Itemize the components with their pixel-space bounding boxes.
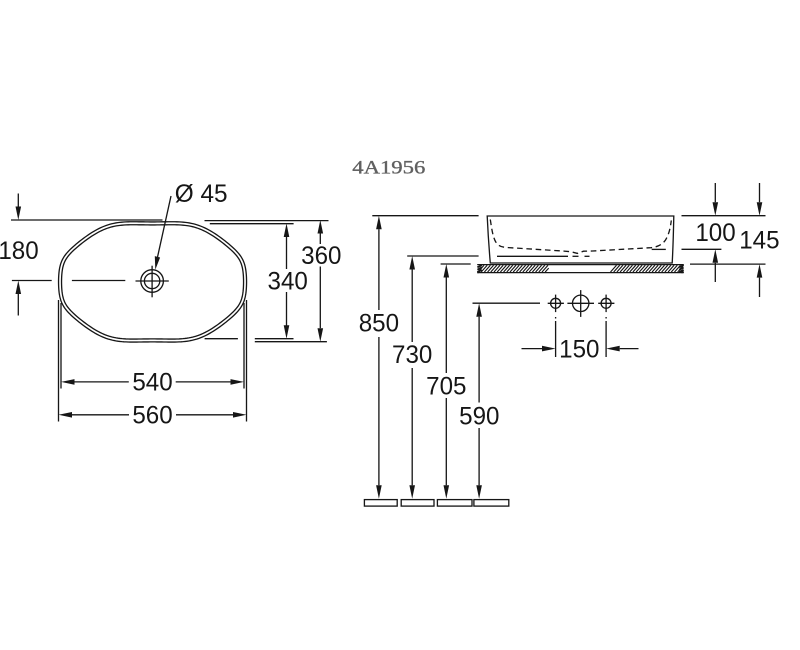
faucet centerline tick marks xyxy=(555,317,557,319)
basin outer rim (top view) xyxy=(59,222,247,342)
drain crosshair horizontal xyxy=(136,280,169,282)
basin inner rim (top view) xyxy=(62,225,244,339)
countertop left end marks xyxy=(477,265,481,273)
svg-text:560: 560 xyxy=(132,403,172,430)
dim 145: top arrowhead (down) xyxy=(757,202,763,216)
dim 100/145: top extension line xyxy=(682,215,766,217)
leader arrowhead xyxy=(155,256,160,270)
dim 150: left arrow line xyxy=(522,348,543,350)
drain hole inner circle xyxy=(144,273,159,288)
dim 100: bottom arrowhead (up) xyxy=(713,249,719,262)
dim 850: line upper part xyxy=(378,229,380,310)
faucet hole left crosshair xyxy=(548,302,564,304)
svg-text:100: 100 xyxy=(695,220,735,247)
dim 560: line right part xyxy=(176,414,233,416)
inner bottom dash-dot marks xyxy=(573,255,579,257)
dim 590: bottom arrowhead (down) xyxy=(476,485,482,499)
dim 540: left extension line xyxy=(60,303,62,389)
dim 360: upper arrowhead xyxy=(318,220,324,234)
dim 560: line left part xyxy=(72,414,129,416)
countertop right end marks xyxy=(679,265,683,273)
dim 340: line upper part xyxy=(286,237,288,269)
floor tile 2 xyxy=(401,500,434,507)
dim 145: bottom arrow shaft xyxy=(759,278,761,297)
svg-text:705: 705 xyxy=(426,374,466,401)
dim 150: left extension line xyxy=(555,321,557,357)
dim 360: line lower part xyxy=(319,267,321,329)
dim 145: top arrow shaft xyxy=(759,183,761,202)
dim 850: top extension line xyxy=(372,215,478,217)
dim 100: top arrowhead (down) xyxy=(713,202,719,216)
floor tile 3 xyxy=(437,500,472,507)
dim 150: right extension line xyxy=(605,321,607,357)
dim 180: lower arrow shaft xyxy=(17,294,19,316)
dim 540: right arrowhead xyxy=(231,379,245,385)
dim 705: top extension line xyxy=(441,263,471,265)
svg-text:360: 360 xyxy=(301,243,341,270)
dim 180: bottom extension line xyxy=(12,280,52,282)
dim 560: left extension line xyxy=(58,300,60,422)
basin outline (side view) xyxy=(487,216,674,263)
dim 850: line lower part xyxy=(378,337,380,485)
drain hole outer circle xyxy=(141,270,164,293)
faucet hole right small circle xyxy=(601,298,611,308)
dim 100: bottom extension line xyxy=(682,248,722,250)
dim 560: left arrowhead xyxy=(59,412,73,418)
dim 340: line lower part xyxy=(286,292,288,326)
dim 540: line left part xyxy=(75,381,129,383)
dim 340: bottom extension line right part xyxy=(255,338,294,340)
dim 730: top arrowhead (up) xyxy=(409,256,415,270)
svg-text:850: 850 xyxy=(359,311,399,338)
svg-text:540: 540 xyxy=(132,370,172,397)
inner bowl dashed profile (side view) xyxy=(490,220,671,254)
svg-text:145: 145 xyxy=(739,228,779,255)
dim 730: top extension line xyxy=(407,255,478,257)
dim 340: bottom extension line xyxy=(205,338,238,340)
dim 705: top arrowhead (up) xyxy=(444,264,450,278)
svg-text:730: 730 xyxy=(392,342,432,369)
floor tile 4 xyxy=(474,500,509,507)
dim 705: line lower part xyxy=(445,398,447,485)
dim 705: bottom arrowhead (down) xyxy=(444,485,450,499)
dim 540: right extension line xyxy=(243,303,245,389)
faucet hole left small circle xyxy=(551,298,561,308)
dim 180: lower arrowhead (up) xyxy=(16,281,22,295)
svg-text:340: 340 xyxy=(268,268,308,295)
dim 100: top arrow shaft xyxy=(714,183,716,202)
dim 590: line upper part xyxy=(478,317,480,403)
dim 705: line upper part xyxy=(445,278,447,374)
dim 150: right arrowhead (left) xyxy=(606,346,620,352)
dim 730: line lower part xyxy=(411,368,413,485)
floor tile 1 xyxy=(364,500,397,507)
basin centerline left segment xyxy=(72,280,125,282)
dim 730: line upper part xyxy=(411,270,413,343)
drain crosshair vertical xyxy=(151,266,153,298)
inner bottom solid line (side view) xyxy=(497,255,568,257)
bowl bottom right solid segment xyxy=(652,248,666,250)
dim 180: upper arrow shaft xyxy=(17,194,19,208)
leader line to drain xyxy=(157,196,171,259)
dim 360: bottom extension line xyxy=(255,341,327,343)
dim 360: top extension line xyxy=(205,220,329,222)
dim 540: line right part xyxy=(176,381,231,383)
dim 100: bottom arrow shaft xyxy=(714,263,716,282)
dim 590: top arrowhead (up) xyxy=(476,303,482,317)
countertop hatch right block xyxy=(611,265,683,272)
dim 850: bottom arrowhead (down) xyxy=(376,485,382,499)
dim 150: right arrow line xyxy=(620,348,639,350)
dim 145: bottom arrowhead (up) xyxy=(757,264,763,278)
countertop top line xyxy=(477,264,684,266)
dim 180: upper arrowhead (down) xyxy=(16,207,22,221)
dim 340: lower arrowhead xyxy=(284,325,290,339)
dim 590: line lower part xyxy=(478,428,480,485)
dim 340: top extension line xyxy=(210,223,294,225)
dim 560: right arrowhead xyxy=(233,412,247,418)
faucet hole right crosshair xyxy=(598,302,614,304)
dim 150: left arrowhead (right) xyxy=(542,346,556,352)
dim 360: lower arrowhead xyxy=(318,328,324,342)
svg-text:150: 150 xyxy=(559,337,599,364)
dim 590: top extension line xyxy=(473,302,541,304)
svg-text:Ø 45: Ø 45 xyxy=(175,181,228,208)
countertop hatch left block xyxy=(478,265,549,272)
dim 560: right extension line xyxy=(246,300,248,422)
dim 360: line upper part xyxy=(319,234,321,245)
dim 145: bottom extension line xyxy=(690,263,766,265)
dim 180: top extension line xyxy=(11,219,163,221)
dim 540: left arrowhead xyxy=(61,379,75,385)
countertop bottom line xyxy=(477,272,684,274)
svg-text:590: 590 xyxy=(459,404,499,431)
faucet hole center crosshair xyxy=(567,302,594,304)
dim 340: upper arrowhead xyxy=(284,224,290,238)
dim 850: top arrowhead (up) xyxy=(376,216,382,230)
svg-text:4A1956: 4A1956 xyxy=(352,158,425,179)
faucet hole center circle xyxy=(573,295,589,311)
svg-text:180: 180 xyxy=(0,238,39,265)
dim 730: bottom arrowhead (down) xyxy=(409,485,415,499)
